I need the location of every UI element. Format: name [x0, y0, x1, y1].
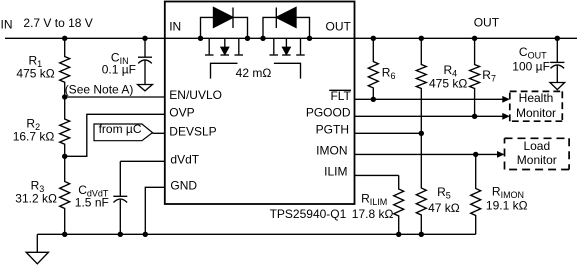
svg-text:OUT: OUT	[474, 16, 500, 30]
svg-text:2.7 V to 18 V: 2.7 V to 18 V	[23, 16, 92, 30]
42 mOhm gate bracket	[211, 63, 238, 78]
svg-text:FLT: FLT	[330, 89, 351, 103]
svg-text:Monitor: Monitor	[517, 153, 557, 167]
svg-text:(See Note A): (See Note A)	[65, 82, 134, 96]
resistor R7	[470, 38, 480, 116]
node: FLT pull-up	[371, 97, 376, 102]
svg-text:RILIM: RILIM	[361, 191, 387, 207]
wire GND	[145, 187, 165, 234]
node: OVP divider tap	[62, 154, 67, 159]
svg-text:R5: R5	[437, 185, 451, 201]
from uC flag	[94, 124, 153, 141]
wire IMON	[355, 153, 499, 155]
svg-text:R7: R7	[482, 68, 496, 84]
arrow to Load Monitor (IMON)	[497, 151, 505, 158]
svg-text:from µC: from µC	[99, 122, 142, 136]
capacitor CIN	[144, 38, 146, 57]
diode D2 (body diode, right FET)	[263, 17, 276, 38]
svg-text:100 µF: 100 µF	[512, 59, 550, 73]
node: IMON	[473, 152, 478, 157]
resistor RIMON	[471, 154, 481, 234]
node: OUT rail junctions	[371, 36, 376, 41]
svg-text:17.8 kΩ: 17.8 kΩ	[352, 207, 394, 221]
svg-text:0.1 µF: 0.1 µF	[102, 63, 136, 77]
node: ground rail junctions	[62, 232, 67, 237]
svg-text:TPS25940-Q1: TPS25940-Q1	[270, 207, 347, 221]
svg-text:Load: Load	[523, 139, 550, 153]
wire IN rail / OUT rail (node IN to node OUT)	[5, 37, 577, 39]
resistor R4	[416, 38, 426, 133]
svg-text:IMON: IMON	[316, 144, 347, 158]
svg-text:COUT: COUT	[519, 45, 547, 61]
wire OVP	[65, 114, 165, 156]
resistor R5	[416, 133, 426, 234]
svg-text:OVP: OVP	[169, 105, 194, 119]
svg-text:IN: IN	[169, 20, 181, 34]
wire dVdT	[120, 160, 165, 162]
svg-text:16.7 kΩ: 16.7 kΩ	[13, 130, 55, 144]
ground (COUT)	[550, 83, 565, 90]
op-amp U1	[165, 2, 355, 205]
svg-text:Health: Health	[519, 91, 554, 105]
svg-text:R6: R6	[382, 66, 396, 82]
svg-text:Monitor: Monitor	[516, 106, 556, 120]
node: IN rail junctions	[62, 36, 67, 41]
svg-text:ILIM: ILIM	[324, 165, 347, 179]
node: PGOOD pull-up	[472, 114, 477, 119]
capacitor COUT	[556, 38, 558, 62]
svg-text:EN/UVLO: EN/UVLO	[169, 88, 222, 102]
svg-text:dVdT: dVdT	[170, 153, 199, 167]
svg-text:42 mΩ: 42 mΩ	[236, 66, 272, 80]
wire PGTH	[355, 132, 422, 134]
node: EN/UVLO divider tap	[62, 94, 67, 99]
svg-text:PGTH: PGTH	[316, 123, 349, 137]
svg-text:GND: GND	[170, 179, 197, 193]
diode D1 (body diode, left FET)	[201, 17, 214, 38]
Load Monitor box (dashed)	[505, 138, 570, 169]
svg-text:47 kΩ: 47 kΩ	[428, 201, 460, 215]
svg-text:19.1 kΩ: 19.1 kΩ	[486, 199, 528, 213]
resistor R1	[60, 38, 70, 97]
svg-text:PGOOD: PGOOD	[306, 106, 351, 120]
resistor R6	[368, 38, 378, 99]
wire ground rail	[37, 233, 475, 235]
svg-text:DEVSLP: DEVSLP	[169, 124, 216, 138]
wire PGOOD	[355, 115, 504, 117]
svg-text:IN: IN	[1, 18, 13, 32]
svg-text:475 kΩ: 475 kΩ	[16, 67, 54, 81]
svg-text:1.5 nF: 1.5 nF	[75, 196, 109, 210]
FLT overline	[329, 89, 351, 91]
transistor Q1 (internal FET 1)	[208, 38, 210, 54]
arrow to Health Monitor (PGOOD)	[502, 113, 510, 120]
arrow to Health Monitor (FLT)	[502, 96, 510, 103]
wire EN/UVLO	[65, 96, 165, 98]
svg-text:475 kΩ: 475 kΩ	[429, 77, 467, 91]
svg-text:31.2 kΩ: 31.2 kΩ	[15, 192, 57, 206]
capacitor CdVdT	[119, 161, 121, 196]
Health Monitor box (dashed)	[510, 91, 563, 121]
resistor R2	[60, 97, 70, 156]
transistor Q2 (internal FET 2)	[273, 38, 275, 54]
ground (CIN)	[138, 85, 153, 91]
wire FLT	[355, 98, 504, 100]
wire DEVSLP	[153, 132, 165, 134]
svg-text:OUT: OUT	[326, 20, 352, 34]
node: PGTH divider	[419, 131, 424, 136]
ground (main, bottom left)	[36, 234, 38, 252]
resistor RILIM	[394, 175, 404, 234]
resistor R3	[60, 156, 70, 234]
wire ILIM	[355, 174, 399, 176]
